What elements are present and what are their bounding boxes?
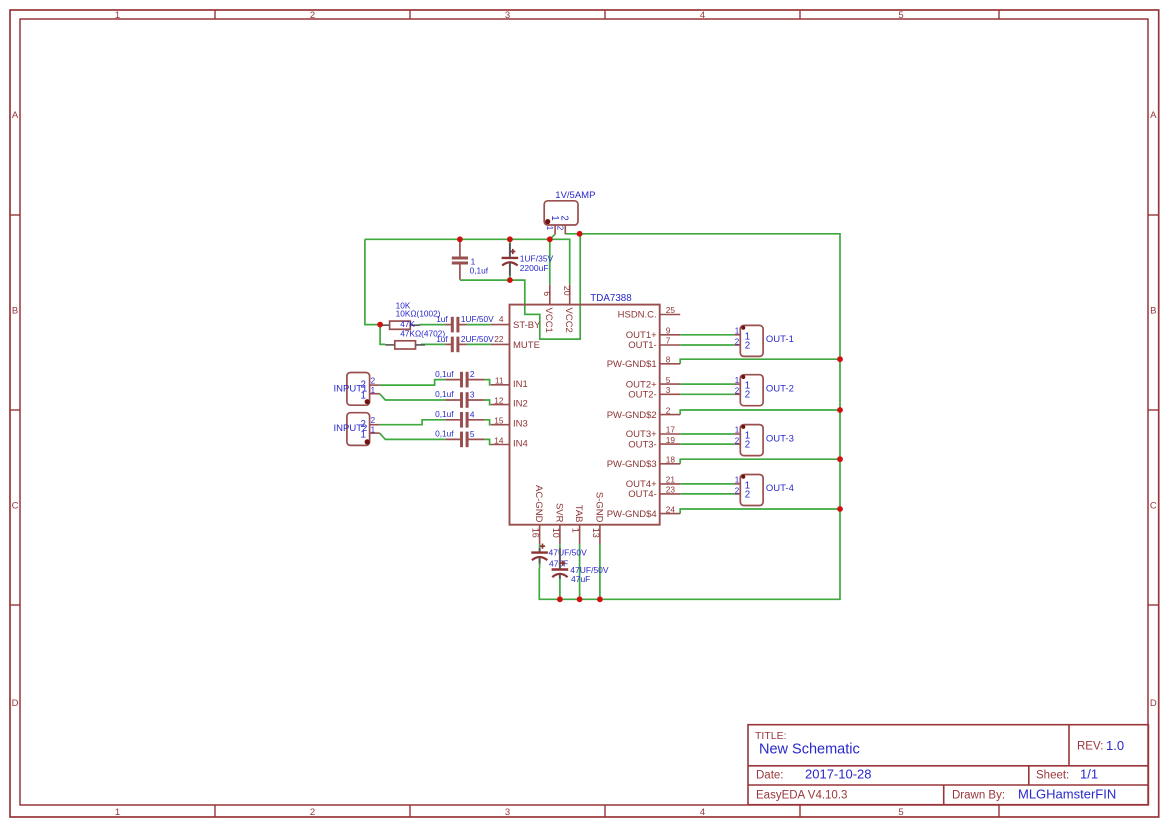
svg-text:18: 18 — [666, 455, 676, 465]
svg-text:2: 2 — [361, 379, 366, 390]
svg-text:OUT-3: OUT-3 — [766, 433, 794, 444]
svg-text:MUTE: MUTE — [513, 340, 540, 351]
svg-text:2: 2 — [735, 437, 740, 446]
svg-text:REV:: REV: — [1077, 741, 1103, 753]
svg-text:2UF/50V: 2UF/50V — [461, 334, 494, 344]
svg-text:2: 2 — [470, 369, 475, 379]
svg-text:B: B — [12, 306, 18, 317]
svg-text:3: 3 — [470, 390, 475, 400]
svg-text:3: 3 — [666, 385, 671, 395]
svg-text:D: D — [12, 698, 19, 709]
svg-text:S-GND: S-GND — [594, 492, 605, 523]
svg-text:OUT1-: OUT1- — [628, 340, 657, 351]
svg-text:2: 2 — [745, 390, 750, 401]
svg-text:PW-GND$3: PW-GND$3 — [607, 459, 657, 470]
svg-text:2200uF: 2200uF — [520, 263, 549, 273]
svg-text:10KΩ(1002): 10KΩ(1002) — [396, 309, 441, 319]
svg-text:OUT2-: OUT2- — [628, 390, 657, 401]
svg-text:16: 16 — [531, 528, 541, 538]
svg-text:13: 13 — [591, 528, 601, 538]
svg-text:TDA7388: TDA7388 — [590, 293, 632, 304]
svg-text:1: 1 — [361, 390, 366, 401]
svg-text:1: 1 — [735, 426, 740, 435]
svg-text:2: 2 — [745, 340, 750, 351]
svg-text:1: 1 — [361, 430, 366, 441]
svg-text:C: C — [12, 501, 19, 512]
svg-text:1: 1 — [735, 327, 740, 336]
svg-text:5: 5 — [666, 375, 671, 385]
svg-text:2: 2 — [735, 486, 740, 495]
svg-text:2: 2 — [371, 377, 376, 386]
svg-text:1: 1 — [371, 425, 376, 434]
svg-text:TAB: TAB — [573, 505, 584, 523]
svg-text:21: 21 — [666, 475, 676, 485]
svg-text:IN4: IN4 — [513, 439, 528, 450]
svg-text:1: 1 — [115, 10, 120, 21]
svg-text:PW-GND$1: PW-GND$1 — [607, 359, 657, 370]
svg-text:1: 1 — [115, 807, 120, 818]
svg-text:5: 5 — [470, 429, 475, 439]
svg-text:6: 6 — [542, 291, 552, 296]
svg-text:Sheet:: Sheet: — [1036, 769, 1069, 781]
svg-text:VCC2: VCC2 — [563, 308, 574, 333]
svg-text:2: 2 — [745, 489, 750, 500]
svg-text:7: 7 — [666, 336, 671, 346]
svg-text:1uf: 1uf — [436, 334, 448, 344]
svg-text:New Schematic: New Schematic — [759, 742, 860, 758]
svg-text:470F: 470F — [549, 559, 568, 569]
svg-text:1: 1 — [545, 226, 554, 231]
svg-text:MLGHamsterFIN: MLGHamsterFIN — [1018, 786, 1116, 801]
svg-text:4: 4 — [700, 10, 705, 21]
svg-text:2: 2 — [310, 807, 315, 818]
svg-text:47uF: 47uF — [571, 574, 590, 584]
svg-text:B: B — [1150, 306, 1156, 317]
svg-text:22: 22 — [494, 334, 504, 344]
svg-text:14: 14 — [494, 435, 504, 445]
svg-text:EasyEDA V4.10.3: EasyEDA V4.10.3 — [756, 789, 847, 801]
svg-text:2017-10-28: 2017-10-28 — [805, 766, 872, 781]
svg-text:PW-GND$2: PW-GND$2 — [607, 410, 657, 421]
svg-text:OUT4-: OUT4- — [628, 489, 657, 500]
svg-text:8: 8 — [666, 355, 671, 365]
svg-text:3: 3 — [505, 10, 510, 21]
svg-text:1V/5AMP: 1V/5AMP — [555, 190, 595, 201]
svg-text:1: 1 — [371, 386, 376, 395]
svg-text:47UF/50V: 47UF/50V — [549, 548, 588, 558]
svg-text:0,1uf: 0,1uf — [435, 389, 454, 399]
svg-text:C: C — [1150, 501, 1157, 512]
svg-text:IN1: IN1 — [513, 379, 528, 390]
svg-text:23: 23 — [666, 485, 676, 495]
svg-text:4: 4 — [499, 314, 504, 324]
svg-text:1: 1 — [735, 376, 740, 385]
svg-text:ST-BY: ST-BY — [513, 320, 541, 331]
svg-text:5: 5 — [898, 807, 903, 818]
svg-text:TITLE:: TITLE: — [755, 730, 787, 742]
svg-text:2: 2 — [555, 226, 564, 231]
svg-text:SVR: SVR — [554, 503, 565, 523]
svg-text:11: 11 — [495, 376, 504, 386]
svg-text:VCC1: VCC1 — [543, 308, 554, 333]
svg-text:OUT3-: OUT3- — [628, 439, 657, 450]
svg-text:2: 2 — [735, 337, 740, 346]
svg-text:2: 2 — [666, 405, 671, 415]
svg-text:Drawn By:: Drawn By: — [952, 789, 1005, 801]
svg-text:A: A — [12, 110, 19, 121]
svg-text:1.0: 1.0 — [1106, 738, 1124, 753]
svg-text:10: 10 — [551, 528, 561, 538]
svg-text:0,1uf: 0,1uf — [435, 429, 454, 439]
svg-text:3: 3 — [505, 807, 510, 818]
svg-text:19: 19 — [666, 435, 676, 445]
svg-text:0,1uf: 0,1uf — [435, 369, 454, 379]
svg-text:AC-GND: AC-GND — [533, 485, 544, 523]
svg-text:IN3: IN3 — [513, 419, 528, 430]
svg-text:0,1uf: 0,1uf — [470, 265, 489, 275]
svg-text:2: 2 — [310, 10, 315, 21]
svg-text:1uf: 1uf — [436, 314, 448, 324]
svg-text:2: 2 — [735, 387, 740, 396]
svg-text:Date:: Date: — [756, 769, 784, 781]
svg-text:OUT-2: OUT-2 — [766, 383, 794, 394]
svg-text:1UF/50V: 1UF/50V — [461, 314, 494, 324]
svg-text:HSDN.C.: HSDN.C. — [618, 310, 657, 321]
svg-text:24: 24 — [666, 504, 676, 514]
svg-text:D: D — [1150, 698, 1157, 709]
svg-text:PW-GND$4: PW-GND$4 — [607, 509, 657, 520]
svg-text:IN2: IN2 — [513, 399, 528, 410]
svg-text:4: 4 — [470, 409, 475, 419]
svg-text:OUT-4: OUT-4 — [766, 483, 794, 494]
svg-text:20: 20 — [562, 286, 572, 296]
svg-text:1: 1 — [549, 215, 560, 220]
svg-text:12: 12 — [494, 395, 504, 405]
svg-text:2: 2 — [361, 419, 366, 430]
svg-text:1: 1 — [735, 476, 740, 485]
svg-text:OUT-1: OUT-1 — [766, 334, 794, 345]
svg-text:1: 1 — [571, 528, 581, 533]
svg-text:1/1: 1/1 — [1080, 766, 1098, 781]
svg-text:5: 5 — [898, 10, 903, 21]
svg-text:2: 2 — [371, 416, 376, 425]
svg-text:25: 25 — [666, 305, 676, 315]
svg-text:15: 15 — [494, 416, 504, 426]
svg-text:2: 2 — [558, 215, 569, 220]
svg-text:4: 4 — [700, 807, 705, 818]
svg-text:17: 17 — [666, 425, 676, 435]
svg-text:9: 9 — [666, 326, 671, 336]
svg-text:0,1uf: 0,1uf — [435, 409, 454, 419]
svg-text:A: A — [1150, 110, 1157, 121]
svg-text:2: 2 — [745, 440, 750, 451]
